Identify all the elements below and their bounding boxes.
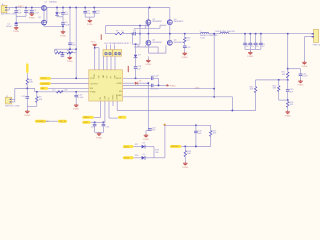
transistor Q2 [38,17,47,25]
wire SW to Q6 [169,34,171,41]
svg-text:PGND: PGND [96,137,102,139]
power label +BATT [17,5,24,8]
wire LDRV line [123,82,135,84]
power tag vertical red [101,34,102,40]
ground cap bank [247,49,253,58]
label J1 BATTERY CONN [1,13,17,16]
label J2 ref [6,96,8,98]
ground driver [145,56,151,66]
U1 pin names right [116,78,122,97]
wire bootstrap left [105,26,107,34]
ground under C4 [13,26,19,33]
U1 pin names top [94,74,116,79]
svg-text:10uF: 10uF [65,24,70,26]
wire cap join right [158,78,160,86]
resistor R14 feedback [250,80,257,111]
wire output rail [229,33,309,35]
capacitor C16 [150,76,159,81]
wire Q5 Q6 source [148,45,166,53]
wire switch up [14,88,16,99]
U1 pin names bottom [100,93,119,99]
wire Q1 to Q2 [44,8,47,23]
transistor Q5 [146,40,163,46]
LED D9 [142,154,145,160]
svg-text:PGND: PGND [29,18,35,20]
svg-text:D6: D6 [139,81,141,83]
svg-text:C11: C11 [133,30,136,32]
wire RC join [27,105,37,107]
junction output caps [244,33,288,35]
wire bus corner [169,8,171,20]
svg-text:10K: 10K [282,74,286,76]
svg-text:R17: R17 [135,144,138,146]
wire LDO right [73,49,77,53]
wire pin RT [109,106,118,118]
wire driver outputs [99,56,115,66]
capacitor C11 [133,30,140,35]
power tag red bar 2 [128,66,129,72]
capacitor C6 [61,17,70,32]
junction bus mid [56,7,150,9]
svg-text:ILIM: ILIM [84,122,88,124]
transistor Q6 [167,40,184,46]
wire pin COMP [116,106,118,111]
svg-text:PGND: PGND [302,66,308,68]
svg-text:R5: R5 [55,50,57,52]
capacitor C24 [299,73,309,80]
wire J3 pin2 [304,37,309,62]
resistor R10 snubber [184,34,192,43]
svg-text:COMP: COMP [117,93,119,99]
capacitor C2 [16,8,32,17]
U1 pin names left [90,78,99,93]
net +5V small [137,45,141,47]
svg-text:EN: EN [41,88,44,90]
net label RT [118,116,126,119]
diode D7 [134,55,142,58]
svg-text:PGND: PGND [90,91,96,93]
svg-text:100uF: 100uF [6,26,13,28]
svg-text:47u: 47u [246,46,249,48]
wire gate net [16,22,41,24]
transistor Q1 [41,1,57,11]
wire tie [46,120,58,122]
svg-text:R.1: R.1 [53,89,56,91]
svg-text:PVCC: PVCC [91,42,97,44]
svg-text:PGND: PGND [145,64,151,66]
svg-text:PGND: PGND [60,35,66,37]
svg-text:7.0uH: 7.0uH [200,37,205,39]
svg-text:SIR468DP: SIR468DP [174,42,184,44]
svg-text:SIA483DJ: SIA483DJ [49,1,57,4]
capacitor C7 [68,8,76,50]
net label PVCC [40,77,51,80]
svg-text:PGND: PGND [247,56,253,58]
svg-text:10K: 10K [39,99,43,101]
ground C13 [73,104,79,111]
wire bus after Q1 [47,7,170,9]
label J3 [313,44,320,46]
wire UG gate line [134,25,166,29]
capacitor C1 [14,8,22,23]
capacitor C13 [74,92,84,105]
wire LED1 out [145,146,154,148]
svg-text:SIR468DP: SIR468DP [152,42,162,44]
wire vout sense [287,34,289,70]
wire ss rail [165,125,211,127]
svg-text:LED1: LED1 [124,146,130,148]
svg-text:BATTERY CONN: BATTERY CONN [1,13,17,16]
svg-text:PGND: PGND [285,115,291,117]
svg-text:0.1uF: 0.1uF [302,76,308,78]
wire cap bank bottom [245,48,261,50]
svg-text:+5V0: +5V0 [195,88,199,90]
resistor R13 [287,100,295,111]
capacitor C5 [61,8,69,17]
transistor Q3 [146,19,163,25]
wire switch to EN [35,91,89,93]
wire LED return [154,125,165,158]
wire bootstrap top [106,25,150,27]
wire FB node rail [256,79,288,81]
transistor Q4 [167,19,184,25]
wire GND line right [123,84,151,86]
label J1 ref [2,3,4,6]
wire bootstrap right [139,26,141,45]
capacitor C18 [134,66,142,78]
U1 pin stubs top [95,66,115,70]
capacitor C8 [61,53,65,58]
wire SW to Q5 [147,34,149,41]
power label +5V0 [195,88,199,90]
capacitor C12 debounce [21,88,29,106]
ground R16 [182,162,188,169]
U1 pin stubs bottom [101,101,118,106]
svg-text:10K: 10K [187,153,191,155]
inductor L1 [200,33,208,34]
wire to D7 [135,44,137,54]
wire LED1 [134,144,142,147]
svg-text:VREG: VREG [84,117,90,119]
label L1 ref [200,30,202,32]
wire C14 C15 join [95,131,104,133]
svg-text:PGND: PGND [87,24,93,26]
diode D6 red [135,81,148,85]
net label LED1 [123,145,134,148]
svg-text:PWR OUT: PWR OUT [313,44,320,46]
ic U2 driver A [103,50,112,57]
net label SW_IN [58,120,67,123]
ground LDO [67,52,73,63]
capacitor C25 [286,80,294,100]
wire L1 L2 [209,33,220,35]
wire zener to cap [57,16,63,18]
wire to R8 [26,73,28,78]
resistor R11 [282,69,289,80]
wire LG gate line [134,45,158,53]
svg-text:0.1uF: 0.1uF [78,97,84,99]
svg-text:BOOT: BOOT [116,78,122,80]
label L2 [215,31,236,33]
wire pill to rail [181,145,183,147]
junction battery bus [15,7,32,9]
LED D8 [142,143,145,149]
ground C9 C10 [87,17,93,26]
net label OUTPUT [40,82,51,85]
svg-text:10K: 10K [250,89,254,91]
svg-text:PGND: PGND [67,61,73,63]
capacitor C14 [91,122,97,132]
svg-text:10K: 10K [290,104,294,106]
ground under C3 [29,13,35,20]
svg-text:PGND: PGND [24,115,30,117]
svg-text:SYNC: SYNC [113,94,115,100]
wire EN [48,87,89,89]
wire R7 to C11 [124,33,134,35]
net tie vertical label [26,63,28,73]
capacitor C27 [148,127,156,131]
wire Q4 to SW [169,25,171,34]
wire C27 gnd [146,131,148,135]
connector J3 output [309,29,319,42]
ground switch RC [24,106,30,117]
resistor R12 [273,80,280,100]
svg-text:ILIM: ILIM [104,96,106,100]
svg-text:10K: 10K [213,133,217,135]
capacitor C17 [150,84,166,91]
capacitor C19 snubber [183,43,191,53]
svg-text:PVCC: PVCC [41,78,47,80]
wire LED2 [134,155,142,158]
net label LED2 [123,156,134,159]
connector J2 switch [5,97,15,104]
wire Q2 source [44,25,63,28]
ground snubber [182,52,188,59]
svg-text:PGND: PGND [182,167,188,169]
capacitor C23 output [259,34,265,50]
svg-text:SIR468DP: SIR468DP [152,21,162,23]
ground R13 [285,111,291,118]
power flag PVCC [93,44,97,66]
capacitor C22 output [254,34,260,50]
power arrow PGND [167,84,177,87]
svg-text:PVIN: PVIN [94,74,96,79]
capacitor C20 output [243,34,249,50]
wire pin SS [94,106,101,117]
svg-text:OUTPUT: OUTPUT [90,83,99,85]
svg-text:SIR468DP: SIR468DP [174,21,184,23]
capacitor C21 output [249,34,255,50]
wire bus drop Q3 [147,8,149,20]
wire BOOT line [123,78,151,80]
wire LDO left [54,49,56,53]
op-amp U1 controller [89,70,123,101]
svg-text:D5: D5 [59,12,61,14]
capacitor C4 bulk [6,22,18,28]
svg-text:LDRV: LDRV [117,83,123,85]
net label POWER_SW [35,120,49,123]
wire LDO mid [61,52,67,54]
wire main input bus [9,7,41,9]
wire Q3 to SW [147,25,149,34]
net label ILIM [82,121,90,124]
net label VREG2 [170,145,181,148]
wire pin ILIM [91,106,105,123]
power label PVCC red [91,42,97,44]
wire R8 down [26,85,28,89]
wire D7 to C18 [135,58,137,66]
resistor R15 [210,125,218,146]
svg-text:TAO: TAO [102,74,105,78]
ground C14 C15 [96,132,102,139]
svg-text:SW_IN: SW_IN [59,121,66,123]
svg-text:2.2: 2.2 [121,30,124,32]
svg-text:47u: 47u [256,46,259,48]
wire PVCC [51,78,89,80]
resistor R6 [67,50,73,54]
svg-text:L1: L1 [200,30,202,32]
wire driver feeds [107,45,115,50]
ground C27 [143,134,149,141]
wire VIN jog [95,48,99,57]
svg-text:47u: 47u [262,46,265,48]
svg-text:VREG5: VREG5 [171,146,179,148]
svg-text:R7: R7 [116,30,118,32]
wire ss bottom rail [183,146,211,148]
svg-text:D8: D8 [143,143,145,145]
svg-text:C16 0.1uF: C16 0.1uF [150,76,159,78]
wire FB long line [117,110,255,112]
wire OUTPUT [51,83,89,85]
wire LDRV down [148,82,150,130]
junction FB node [287,79,289,81]
resistor R16 [184,146,192,163]
capacitor C15 [102,122,110,132]
wire SW node [129,33,201,35]
svg-text:SWITCH CONN: SWITCH CONN [5,106,20,108]
svg-text:PGND: PGND [298,85,304,87]
ground C24 [298,80,304,87]
note bootstrap resistor [105,42,131,45]
wire diode feed top [132,43,139,45]
ic U3 driver B [113,50,122,57]
svg-text:PGND: PGND [143,139,149,141]
svg-text:47u: 47u [251,46,254,48]
net label EN [40,87,48,90]
node orange tie [164,124,166,126]
wire comp line1 [123,88,215,98]
svg-text:PGND: PGND [182,57,188,59]
svg-text:D9: D9 [143,154,145,156]
svg-text:PGND: PGND [73,109,79,111]
capacitor C10 [93,8,101,18]
wire bootstrap row [106,33,115,35]
ground J3 [302,61,308,68]
svg-text:PGND: PGND [170,85,176,87]
svg-text:BOOTSTRAP RESISTOR R7 ?: BOOTSTRAP RESISTOR R7 ? [105,42,131,45]
label L1 [200,35,218,39]
diode D5 zener [55,8,61,17]
connector J1 battery input [1,5,9,12]
svg-text:10K: 10K [29,82,33,84]
svg-text:Q1: Q1 [45,2,47,4]
capacitor C9 [83,8,91,18]
capacitor C3 [30,8,40,15]
wire jog down [34,88,36,91]
wire LED2 out [145,157,154,159]
resistor R9 [36,92,43,107]
wire LED join [154,147,160,158]
inductor L2 [220,33,229,34]
svg-text:0.1uF: 0.1uF [34,12,40,14]
wire sense tap [213,33,215,89]
wire branch C24 [288,69,301,74]
svg-text:R18: R18 [135,155,138,157]
svg-text:PGND: PGND [13,31,19,33]
svg-text:OUTPUT: OUTPUT [41,83,50,85]
resistor R8 [26,78,33,84]
wire comp line2 [123,97,233,111]
resistor R5 [55,50,61,54]
label J2 SWITCH [5,106,20,108]
ground under C6 [60,31,66,38]
wire cap common [85,16,94,18]
svg-text:43K: 43K [273,88,277,90]
wire LDO top rail [55,48,78,50]
resistor R1 [53,89,69,93]
wire FB bottom rail [279,99,289,101]
net label SS [82,116,93,119]
capacitor C26 [194,125,202,146]
wire PVCC feed [75,8,77,79]
wire bootstrap tap [132,33,134,44]
svg-text:LED2: LED2 [124,158,130,160]
svg-text:J2: J2 [6,96,8,98]
resistor R7 bootstrap [115,30,124,34]
wire switch net [15,88,35,90]
